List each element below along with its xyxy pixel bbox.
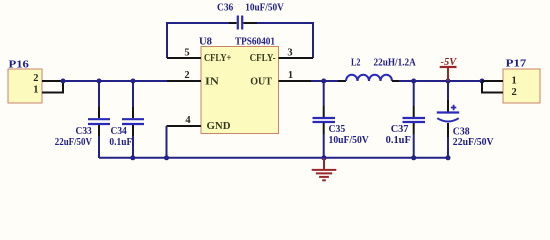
svg-text:C33: C33 xyxy=(76,126,92,137)
capacitor C37 xyxy=(403,82,426,158)
wire GND pin to bottom rail xyxy=(166,126,168,158)
svg-text:U8: U8 xyxy=(199,37,212,48)
junction ground symbol xyxy=(322,155,327,160)
svg-text:2: 2 xyxy=(512,87,517,98)
capacitor C35 xyxy=(313,82,336,158)
capacitor C34 xyxy=(122,82,144,158)
svg-text:22uH/1.2A: 22uH/1.2A xyxy=(374,58,417,69)
svg-text:0.1uF: 0.1uF xyxy=(386,135,411,146)
U8 pin 1 wire xyxy=(279,80,312,82)
svg-text:L2: L2 xyxy=(351,58,361,69)
svg-text:C34: C34 xyxy=(111,126,128,137)
svg-text:GND: GND xyxy=(207,121,231,132)
svg-text:1: 1 xyxy=(33,85,38,96)
inductor L2 xyxy=(338,75,400,81)
junction GND wire bottom xyxy=(164,155,169,160)
junction C37 xyxy=(411,79,416,84)
svg-text:CFLY-: CFLY- xyxy=(250,53,276,64)
connector P17 xyxy=(503,69,540,103)
svg-text:2: 2 xyxy=(33,73,38,84)
svg-text:1: 1 xyxy=(288,70,293,81)
svg-text:C38: C38 xyxy=(453,127,470,138)
wire inductor to P17 xyxy=(399,80,482,82)
capacitor C38 (polarized) xyxy=(437,82,459,158)
wire bottom rail xyxy=(99,157,448,159)
svg-text:-5V: -5V xyxy=(441,57,458,68)
svg-text:C35: C35 xyxy=(329,124,346,135)
P16 pin 2 wire xyxy=(42,80,63,82)
junction C38 bottom xyxy=(446,155,451,160)
svg-text:3: 3 xyxy=(287,48,292,59)
U8 pin 4 wire xyxy=(167,125,202,127)
svg-text:2: 2 xyxy=(184,70,189,81)
svg-text:C37: C37 xyxy=(391,124,409,135)
svg-text:TPS60401: TPS60401 xyxy=(235,37,275,48)
svg-text:22uF/50V: 22uF/50V xyxy=(453,137,494,148)
svg-text:5: 5 xyxy=(184,48,189,59)
svg-text:1: 1 xyxy=(512,76,517,87)
svg-text:P17: P17 xyxy=(506,59,527,70)
junction at P16 output xyxy=(61,79,66,84)
junction C34 bottom xyxy=(130,155,135,160)
junction C33 xyxy=(97,79,102,84)
svg-text:C36: C36 xyxy=(217,3,233,14)
svg-text:P16: P16 xyxy=(9,60,29,71)
op-amp U8 body xyxy=(201,47,279,134)
U8 pin 2 wire xyxy=(167,80,201,82)
junction P17 xyxy=(480,79,485,84)
junction C37 bottom xyxy=(411,155,416,160)
U8 pin 5 wire xyxy=(167,57,201,59)
svg-text:0.1uF: 0.1uF xyxy=(109,137,132,148)
U8 pin 3 wire xyxy=(279,57,314,59)
svg-text:4: 4 xyxy=(185,115,191,126)
svg-text:22uF/50V: 22uF/50V xyxy=(55,137,92,148)
svg-text:10uF/50V: 10uF/50V xyxy=(245,3,284,14)
svg-text:10uF/50V: 10uF/50V xyxy=(329,135,370,146)
power port -5V xyxy=(440,67,457,81)
P17 pin 1 wire xyxy=(482,80,503,82)
wire top rail with side verticals (C36 loop) xyxy=(167,23,313,58)
connector P16 xyxy=(8,69,42,103)
svg-text:OUT: OUT xyxy=(250,77,272,88)
svg-text:CFLY+: CFLY+ xyxy=(204,53,231,64)
capacitor C33 xyxy=(88,82,110,158)
wire P16 to U8 IN xyxy=(63,80,167,82)
svg-text:IN: IN xyxy=(205,77,219,88)
junction -5V / C38 xyxy=(446,79,451,84)
junction C34 xyxy=(131,79,136,84)
P17 pin 2 wire xyxy=(482,81,503,93)
capacitor C36 xyxy=(229,16,257,30)
ground symbol xyxy=(312,158,337,180)
wire OUT to inductor xyxy=(311,80,338,82)
junction C35 xyxy=(321,79,326,84)
P16 pin 1 wire xyxy=(42,81,63,93)
